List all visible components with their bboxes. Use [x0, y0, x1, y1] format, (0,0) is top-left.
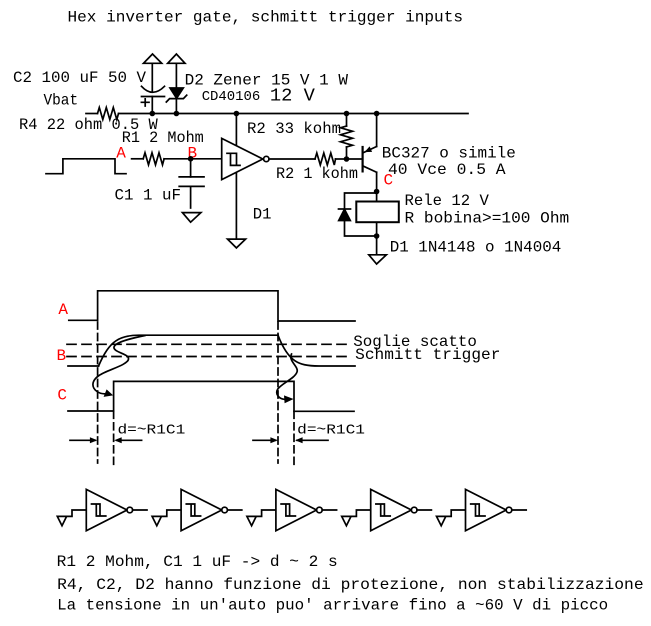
svg-text:40 Vce 0.5 A: 40 Vce 0.5 A [388, 161, 506, 179]
vertical dashed C fall [293, 411, 295, 465]
relay coil box [356, 202, 399, 223]
svg-text:BC327 o simile: BC327 o simile [382, 145, 516, 163]
transistor Q1 BC327 [347, 114, 377, 192]
ground [342, 516, 351, 525]
node: R2 33k bus junction [344, 111, 350, 117]
wire R2 to base node [336, 158, 347, 160]
svg-text:D1: D1 [253, 205, 272, 223]
ground [437, 516, 446, 525]
input wire [62, 510, 86, 516]
resistor R2 33 kohm [341, 114, 353, 160]
svg-text:D1 1N4148 o 1N4004: D1 1N4148 o 1N4004 [390, 239, 562, 257]
input wire [346, 510, 370, 516]
svg-text:B: B [57, 347, 67, 365]
bottom text lines [57, 553, 644, 615]
svg-text:R bobina>=100 Ohm: R bobina>=100 Ohm [405, 209, 570, 227]
svg-text:B: B [188, 145, 198, 163]
wire R1 to gate input [164, 158, 222, 160]
vertical dashed C rise [113, 411, 115, 465]
output bubble [317, 507, 323, 513]
svg-text:C1 1 uF: C1 1 uF [115, 186, 182, 204]
wire node A to R1 [132, 158, 144, 160]
svg-text:d=~R1C1: d=~R1C1 [118, 423, 186, 439]
input pulse glyph [46, 159, 126, 174]
svg-text:12 V: 12 V [270, 87, 315, 107]
svg-text:A: A [116, 145, 126, 163]
svg-text:Schmitt trigger: Schmitt trigger [355, 346, 500, 364]
spare gate 2 [152, 489, 242, 530]
wire: 12V bus [119, 113, 469, 115]
capacitor C1 [179, 159, 204, 208]
signal C waveform [68, 381, 354, 411]
input wire [157, 510, 181, 516]
d arrow right-right [295, 437, 328, 443]
inverter triangle [276, 489, 317, 530]
input wire [441, 510, 465, 516]
node base junction [344, 156, 350, 162]
svg-text:C2 100 uF 50 V: C2 100 uF 50 V [13, 69, 146, 87]
spare gate 3 [247, 489, 337, 530]
node: D2-bus junction [174, 111, 180, 117]
ground below C1 [182, 213, 201, 223]
inverter triangle [371, 489, 412, 530]
inverter triangle [86, 489, 127, 530]
curved arrow left [93, 336, 145, 397]
svg-text:Hex inverter gate, schmitt tri: Hex inverter gate, schmitt trigger input… [68, 9, 464, 27]
hysteresis glyph [186, 504, 200, 516]
resistor R2 1 kohm [315, 153, 336, 165]
vertical dashed A fall [277, 322, 279, 463]
node bottom junction [374, 233, 380, 239]
ground below relay [376, 236, 378, 255]
power arrow above C2 [144, 54, 162, 63]
node C junction [374, 189, 380, 195]
op-amp U1 inverter triangle [222, 138, 263, 179]
vertical dashed A rise [97, 322, 99, 463]
diode D1 flyback [339, 209, 351, 221]
relay branch wires [376, 192, 378, 237]
curved arrow right [277, 354, 297, 403]
output bubble [264, 156, 269, 161]
wire: Vbat feed into R4 [86, 113, 98, 115]
hysteresis glyph [471, 504, 485, 516]
spare gate 5 [437, 489, 527, 530]
output bubble [127, 507, 133, 513]
gate VCC wire [235, 114, 237, 147]
input wire [252, 510, 276, 516]
ground below gate [228, 239, 246, 248]
ground [247, 516, 256, 525]
output wire [417, 509, 431, 511]
threshold dashed upper [67, 343, 349, 345]
signal B discharge curve [278, 335, 355, 366]
output wire [512, 509, 526, 511]
emitter arrow (PNP) [365, 146, 373, 152]
d arrow left-left [70, 437, 97, 443]
capacitor C2 [141, 63, 164, 113]
svg-text:R2 33 kohm: R2 33 kohm [247, 120, 341, 138]
d arrow right-left [253, 437, 278, 443]
svg-text:R4, C2, D2 hanno funzione di p: R4, C2, D2 hanno funzione di protezione,… [57, 576, 644, 594]
hysteresis glyph [227, 153, 240, 165]
output wire [227, 509, 241, 511]
output bubble [411, 507, 417, 513]
svg-text:A: A [58, 301, 68, 319]
output bubble [222, 507, 228, 513]
gate GND wire [235, 173, 237, 240]
d arrow left-right [114, 437, 141, 443]
svg-text:C: C [57, 387, 67, 405]
output wire [133, 509, 147, 511]
inverter triangle [466, 489, 507, 530]
node: emitter bus junction [374, 111, 380, 117]
signal A waveform [69, 291, 355, 321]
svg-text:D2 Zener 15 V 1 W: D2 Zener 15 V 1 W [185, 71, 349, 89]
svg-text:R2 1 kohm: R2 1 kohm [276, 165, 358, 183]
output bubble [506, 507, 512, 513]
wire gate output [269, 158, 315, 160]
hysteresis glyph [376, 504, 390, 516]
svg-text:Rele 12 V: Rele 12 V [405, 192, 490, 210]
svg-text:La tensione in un'auto puo' ar: La tensione in un'auto puo' arrivare fin… [57, 596, 608, 614]
spare gate 4 [342, 489, 432, 530]
node B junction [188, 156, 194, 162]
threshold dashed lower [67, 356, 349, 358]
spare gate 1 [57, 489, 147, 530]
inverter triangle [181, 489, 222, 530]
ground [57, 516, 66, 525]
zener D2 [166, 63, 186, 113]
resistor R4 [98, 108, 119, 120]
signal B low segment [68, 365, 99, 367]
ground [152, 516, 161, 525]
svg-text:d=~R1C1: d=~R1C1 [297, 423, 365, 439]
node: gate VCC junction [234, 111, 240, 117]
output wire [322, 509, 336, 511]
svg-text:R1 2 Mohm, C1 1 uF -> d ~ 2 s: R1 2 Mohm, C1 1 uF -> d ~ 2 s [57, 553, 338, 571]
svg-text:C: C [384, 171, 394, 189]
svg-text:Vbat: Vbat [44, 91, 79, 109]
circuit labels [13, 69, 569, 257]
signal B charge curve [99, 335, 278, 366]
resistor R1 [143, 153, 164, 165]
node: C2-bus junction [150, 111, 156, 117]
hysteresis glyph [92, 504, 106, 516]
svg-text:CD40106: CD40106 [202, 89, 261, 105]
hysteresis glyph [281, 504, 295, 516]
power arrow above D2 [168, 54, 185, 63]
